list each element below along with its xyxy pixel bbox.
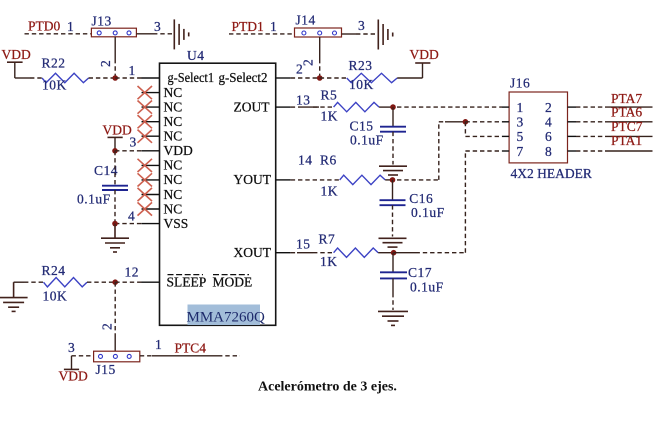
svg-text:13: 13 bbox=[296, 92, 311, 107]
svg-text:R7: R7 bbox=[319, 232, 336, 247]
node D junction (VSS/C14/gnd) bbox=[112, 221, 118, 227]
svg-text:1: 1 bbox=[155, 337, 162, 352]
node G junction (R6/C16/J16 wire) bbox=[390, 177, 396, 183]
wire pin14 to R6 bbox=[291, 179, 340, 181]
svg-text:MODE: MODE bbox=[213, 275, 253, 290]
ground (C16) bbox=[379, 238, 407, 247]
svg-text:2: 2 bbox=[100, 323, 115, 330]
wire R22 to node A bbox=[89, 77, 116, 79]
svg-text:PTC7: PTC7 bbox=[611, 119, 643, 134]
node E junction (R24/pin12/J15) bbox=[112, 279, 118, 285]
no-connect X row2 bbox=[138, 86, 153, 99]
svg-text:PTA1: PTA1 bbox=[611, 133, 642, 148]
wire node C to U4 pin3 bbox=[115, 150, 142, 152]
svg-text:VSS: VSS bbox=[164, 216, 189, 231]
capacitor C16 bbox=[380, 180, 445, 237]
pin 15 stub (XOUT) bbox=[276, 252, 291, 254]
ground (C17) bbox=[378, 311, 408, 325]
svg-text:VDD: VDD bbox=[410, 47, 439, 62]
svg-text:2: 2 bbox=[545, 100, 552, 115]
svg-text:3: 3 bbox=[517, 115, 524, 130]
wire J16 pin2 to PTA7 bbox=[576, 106, 605, 108]
wire J15 pin1 to PTC4 bbox=[140, 355, 152, 357]
svg-text:5: 5 bbox=[517, 129, 524, 144]
wire J14 pin3 to ground bbox=[342, 33, 357, 35]
svg-text:g-Select2: g-Select2 bbox=[219, 70, 268, 85]
wire R23 to VDD bbox=[397, 77, 422, 79]
NC pin stub row10 bbox=[142, 208, 160, 210]
wire node H right and up to J16 pin7 bbox=[394, 252, 416, 254]
svg-text:4: 4 bbox=[128, 209, 135, 224]
resistor R22 bbox=[42, 56, 89, 93]
svg-text:2: 2 bbox=[296, 62, 303, 77]
svg-text:NC: NC bbox=[164, 187, 183, 202]
wire VDD to R22 bbox=[15, 77, 30, 79]
svg-text:R22: R22 bbox=[42, 56, 66, 71]
svg-text:0.1uF: 0.1uF bbox=[411, 205, 445, 220]
svg-text:7: 7 bbox=[517, 144, 524, 159]
NC pin stub row7 bbox=[142, 164, 160, 166]
wire J14 pin2 down to node B bbox=[319, 37, 321, 59]
node A junction bbox=[112, 75, 118, 81]
part label MMA7260Q bbox=[187, 305, 266, 326]
svg-text:10K: 10K bbox=[349, 77, 374, 92]
NC pin stub row8 bbox=[142, 179, 160, 181]
wire J16 pin8 to PTA1 bbox=[576, 150, 605, 152]
pin 3 stub bbox=[142, 150, 160, 152]
ground (R24 left) bbox=[0, 282, 28, 311]
svg-text:MMA7260Q: MMA7260Q bbox=[187, 310, 266, 326]
NC pin stub row9 bbox=[142, 194, 160, 196]
NC pin stub row3 bbox=[142, 106, 160, 108]
wire node E down to J15 pin2 bbox=[114, 282, 116, 334]
svg-text:J13: J13 bbox=[92, 14, 112, 29]
svg-text:NC: NC bbox=[164, 129, 183, 144]
pin 12 stub bbox=[142, 281, 160, 283]
node F junction (R5/C15/J16) bbox=[390, 104, 396, 110]
svg-text:2: 2 bbox=[98, 60, 113, 67]
svg-text:R24: R24 bbox=[42, 263, 66, 278]
no-connect X row3 bbox=[138, 101, 153, 114]
capacitor C15 bbox=[350, 107, 407, 164]
svg-text:J14: J14 bbox=[296, 13, 316, 28]
pin 13 stub (ZOUT) bbox=[276, 106, 291, 108]
svg-text:PTD1: PTD1 bbox=[232, 19, 264, 34]
svg-text:8: 8 bbox=[545, 144, 552, 159]
wire U4 pin2 to node B bbox=[291, 77, 320, 79]
jumper J14 bbox=[295, 13, 342, 38]
svg-text:VDD: VDD bbox=[2, 47, 31, 62]
svg-text:Acelerómetro de 3 ejes.: Acelerómetro de 3 ejes. bbox=[258, 380, 397, 395]
svg-text:14: 14 bbox=[298, 153, 313, 168]
wire node I down to J16 pin5 bbox=[464, 122, 466, 137]
svg-text:6: 6 bbox=[545, 129, 552, 144]
svg-text:PTC4: PTC4 bbox=[175, 341, 207, 356]
wire node A to U4 pin1 bbox=[115, 77, 141, 79]
wire PTD0 to J13 pin1 bbox=[25, 33, 92, 35]
resistor R24 bbox=[42, 263, 88, 304]
wire R24 to node E bbox=[87, 281, 115, 283]
svg-text:R23: R23 bbox=[349, 58, 373, 73]
ground (VSS) bbox=[101, 224, 129, 252]
svg-text:NC: NC bbox=[164, 201, 183, 216]
node B junction bbox=[317, 75, 323, 81]
svg-text:ZOUT: ZOUT bbox=[234, 99, 271, 114]
svg-text:J16: J16 bbox=[510, 76, 530, 91]
wire node G right and up to node I bbox=[397, 179, 439, 181]
wire pin13 to R5 bbox=[291, 106, 297, 108]
pin 14 stub (YOUT) bbox=[276, 179, 291, 181]
svg-text:XOUT: XOUT bbox=[234, 245, 272, 260]
svg-text:0.1uF: 0.1uF bbox=[77, 192, 111, 207]
node C junction (VDD/C14/pin3) bbox=[112, 148, 118, 154]
no-connect X row10 bbox=[138, 202, 153, 215]
wire ground to R24 bbox=[14, 281, 24, 283]
wire node E to U4 pin12 bbox=[115, 281, 141, 283]
NC pin stub row5 bbox=[142, 135, 160, 137]
svg-text:VDD: VDD bbox=[103, 123, 132, 138]
svg-text:12: 12 bbox=[125, 265, 140, 280]
capacitor C17 bbox=[380, 253, 444, 310]
resistor R7 bbox=[319, 232, 379, 270]
svg-text:0.1uF: 0.1uF bbox=[350, 133, 384, 148]
power port VDD (left) bbox=[2, 47, 31, 78]
svg-text:YOUT: YOUT bbox=[234, 172, 272, 187]
svg-text:NC: NC bbox=[164, 99, 183, 114]
svg-text:C17: C17 bbox=[408, 265, 432, 280]
svg-text:PTD0: PTD0 bbox=[28, 19, 61, 34]
svg-text:3: 3 bbox=[130, 134, 137, 149]
NC pin stub row2 bbox=[142, 92, 160, 94]
resistor R5 bbox=[321, 88, 380, 124]
svg-text:1K: 1K bbox=[321, 184, 339, 199]
svg-text:10K: 10K bbox=[43, 289, 68, 304]
wire PTD1 to J14 pin1 bbox=[229, 33, 295, 35]
svg-text:g-Select1: g-Select1 bbox=[168, 70, 215, 85]
jumper J13 bbox=[91, 14, 136, 37]
svg-text:1K: 1K bbox=[321, 109, 339, 124]
wire J13 pin2 down to node A bbox=[114, 37, 116, 59]
wire R5 to node F bbox=[379, 106, 393, 108]
jumper J15 bbox=[94, 351, 140, 377]
ground (C15) bbox=[379, 166, 407, 175]
resistor R23 bbox=[347, 58, 398, 92]
wire node F to J16 pin1 bbox=[397, 106, 502, 108]
svg-text:PTA6: PTA6 bbox=[611, 105, 642, 120]
J16 right pin stubs bbox=[568, 107, 577, 151]
svg-text:SLEEP: SLEEP bbox=[167, 275, 207, 290]
no-connect X row4 bbox=[138, 115, 153, 128]
wire J13 pin3 to ground bbox=[136, 33, 153, 35]
header J16 4X2 bbox=[509, 76, 592, 181]
pin name SLEEP MODE (active low) bbox=[167, 275, 253, 290]
resistor R6 bbox=[320, 153, 385, 199]
J16 left pin stubs bbox=[502, 107, 509, 151]
NC pin stub row4 bbox=[142, 121, 160, 123]
svg-text:R6: R6 bbox=[320, 153, 337, 168]
svg-text:C15: C15 bbox=[350, 119, 374, 134]
pin 4 stub bbox=[142, 223, 160, 225]
svg-text:4X2 HEADER: 4X2 HEADER bbox=[511, 166, 592, 181]
svg-text:1: 1 bbox=[129, 63, 136, 78]
svg-text:C16: C16 bbox=[409, 191, 433, 206]
svg-text:NC: NC bbox=[164, 172, 183, 187]
ground (J13 pin3) bbox=[174, 19, 188, 49]
svg-text:3: 3 bbox=[154, 19, 161, 34]
wire R6 to node G bbox=[385, 179, 392, 181]
wire J16 pin6 to PTC7 bbox=[576, 135, 605, 137]
capacitor C14 bbox=[77, 151, 128, 224]
svg-text:3: 3 bbox=[358, 18, 365, 33]
wire J16 pin4 to PTA6 bbox=[576, 121, 605, 123]
svg-text:10K: 10K bbox=[42, 78, 67, 93]
no-connect X row8 bbox=[138, 173, 153, 186]
svg-text:1: 1 bbox=[270, 19, 277, 34]
wire node B to R23 bbox=[320, 77, 347, 79]
wire pin15 to R7 bbox=[291, 252, 297, 254]
svg-text:VDD: VDD bbox=[164, 143, 193, 158]
node H junction (R7/C17/J16 wire) bbox=[391, 250, 397, 256]
pin 2 stub (U4) bbox=[276, 77, 291, 79]
wire R7 to node H bbox=[378, 252, 393, 254]
no-connect X row7 bbox=[138, 159, 153, 172]
svg-text:0.1uF: 0.1uF bbox=[410, 280, 444, 295]
wire node I to J16 pin3 bbox=[465, 121, 502, 123]
wire J15 pin3 to VDD bbox=[72, 355, 94, 357]
no-connect X row9 bbox=[138, 188, 153, 201]
svg-text:J15: J15 bbox=[96, 362, 116, 377]
pin 1 stub bbox=[142, 77, 160, 79]
svg-text:R5: R5 bbox=[321, 88, 338, 103]
power port VDD (top right) bbox=[410, 47, 439, 63]
svg-text:1: 1 bbox=[67, 19, 74, 34]
svg-text:U4: U4 bbox=[187, 48, 205, 63]
wire U4 pin4 to node D bbox=[115, 223, 142, 225]
svg-text:3: 3 bbox=[68, 340, 75, 355]
ground (J14 pin3) bbox=[378, 20, 392, 50]
power port VDD (above U4 pin3) bbox=[103, 123, 132, 151]
svg-text:4: 4 bbox=[545, 115, 552, 130]
power port VDD (below J15, inverted) bbox=[59, 369, 88, 384]
svg-text:VDD: VDD bbox=[59, 369, 88, 384]
svg-text:1: 1 bbox=[517, 100, 524, 115]
svg-text:NC: NC bbox=[164, 85, 183, 100]
svg-text:NC: NC bbox=[164, 114, 183, 129]
svg-text:15: 15 bbox=[296, 237, 311, 252]
svg-text:1K: 1K bbox=[320, 254, 338, 269]
no-connect X row5 bbox=[138, 130, 153, 143]
svg-text:PTA7: PTA7 bbox=[611, 91, 642, 106]
svg-text:NC: NC bbox=[164, 158, 183, 173]
node I junction (J16 pin3/pin5) bbox=[463, 119, 469, 125]
